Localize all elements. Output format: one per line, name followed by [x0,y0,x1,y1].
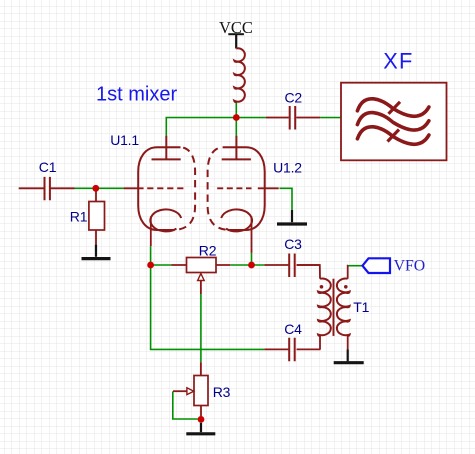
ground (R3) [186,423,215,434]
XF wave slash 1 [389,102,401,114]
junction node (R3 bottom) [198,416,205,423]
junction node (C1/R1) [92,185,99,192]
svg-text:T1: T1 [353,299,369,315]
resistor R1 [89,190,105,245]
svg-text:R2: R2 [199,243,217,259]
wire left cathode net [151,246,265,349]
wire right grid to ground [280,188,293,210]
transformer T1 secondary winding [337,279,350,336]
ground (R1) [82,245,111,259]
capacitor C2 [266,106,321,130]
svg-text:XF: XF [383,49,413,74]
svg-text:C1: C1 [39,159,57,175]
wire anode net top [166,102,265,135]
wire C2 to XF [320,117,341,119]
capacitor C3 [264,254,320,278]
ground (U1.2 grid) [277,210,307,224]
svg-text:C4: C4 [284,321,302,337]
transformer T1 polarity dots [320,285,324,289]
inductor L (VCC choke) [234,48,245,102]
svg-text:VCC: VCC [219,18,253,37]
VFO port symbol [363,258,391,273]
tube U1.1 anode [152,136,181,160]
tube U1.2 grid [258,187,279,189]
capacitor C1 [19,177,75,200]
junction node (right cathode) [248,262,255,269]
potentiometer R2 [172,258,231,295]
tube U1.2 cathode [221,209,252,231]
transformer T1 secondary leads [347,266,349,350]
tube U1.1 grid [124,187,144,189]
tube U1.1 cathode [150,209,181,231]
tube U1.2 anode [222,136,251,160]
svg-text:U1.1: U1.1 [110,132,139,148]
svg-text:C3: C3 [284,236,302,252]
svg-text:C2: C2 [285,89,303,105]
junction node (left cathode) [147,262,154,269]
svg-text:R3: R3 [213,384,231,400]
junction node (anode/VCC) [233,114,240,121]
svg-text:VFO: VFO [394,258,426,275]
XF wave 2 [357,113,429,130]
tube U1.1 envelope [138,147,195,230]
wire input net C1-R1-grid [75,187,124,189]
XF wave 1 [357,99,429,116]
svg-text:U1.2: U1.2 [273,160,302,176]
XF wave slash 2 [388,130,400,142]
wire right cathode / C3 net [230,253,264,265]
transformer T1 primary lead top [297,265,321,349]
VCC power symbol [228,34,244,48]
wire R3 wiper loop [173,391,198,419]
svg-text:1st mixer: 1st mixer [96,83,177,105]
transformer T1 primary winding [318,279,331,336]
capacitor C4 [264,338,320,362]
transformer T1 core [333,279,335,336]
svg-text:R1: R1 [70,209,88,225]
potentiometer R3 [173,362,208,416]
XF wave 3 [357,127,429,144]
tube U1.2 envelope [208,147,265,230]
XF filter box [341,83,447,161]
wire VFO net [348,265,363,267]
ground (T1 secondary) [334,350,364,363]
wire R2 wiper to R3 [200,294,202,362]
